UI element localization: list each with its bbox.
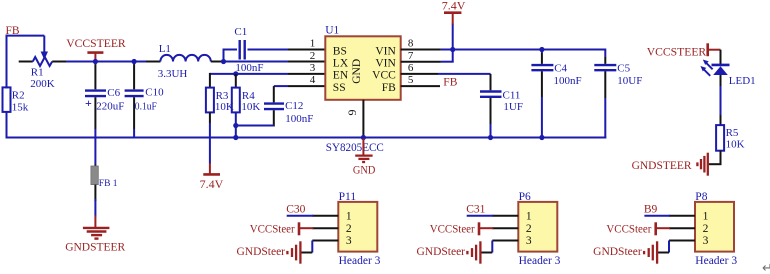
svg-text:1: 1 (310, 38, 316, 50)
svg-text:VCC: VCC (372, 70, 396, 82)
svg-text:2: 2 (526, 223, 532, 235)
pin number 1 of P6 (526, 211, 532, 223)
svg-text:SY8205ECC: SY8205ECC (326, 142, 384, 154)
wire pin 7 stub (401, 61, 454, 63)
pin number 4 (310, 74, 316, 86)
node C11 rail junction (488, 135, 493, 140)
pin number 2 of P11 (346, 223, 352, 235)
wire FB net horizontal (7, 35, 45, 37)
wire pin 1 stub of P6 (492, 215, 518, 217)
svg-text:1: 1 (526, 211, 532, 223)
svg-text:↵: ↵ (762, 260, 770, 274)
svg-text:C1: C1 (234, 26, 247, 38)
svg-text:Header 3: Header 3 (519, 255, 561, 267)
svg-text:9: 9 (345, 110, 359, 116)
svg-text:100nF: 100nF (285, 113, 313, 125)
wire LED top (720, 50, 722, 64)
label Header 3 of P6 (519, 255, 561, 267)
svg-text:1UF: 1UF (503, 101, 523, 113)
pin number 1 (310, 38, 316, 50)
pin number 7 (408, 50, 414, 62)
svg-text:C12: C12 (285, 100, 303, 112)
wire pin 3 stub of P6 (492, 240, 518, 242)
power port VCCSteer of P8 (606, 222, 670, 235)
pin name GND rotated (351, 59, 363, 84)
svg-text:7: 7 (408, 50, 414, 62)
svg-text:3: 3 (703, 235, 709, 247)
svg-text:VCCSteer: VCCSteer (250, 223, 295, 235)
wire R3 bottom to 7.4V (209, 112, 211, 163)
wire pin 3 riser of P11 (301, 241, 312, 253)
power port VCCSTEER (66, 36, 126, 61)
wire net C31 (467, 215, 494, 217)
capacitor C6 (85, 62, 124, 139)
pin number 1 of P8 (703, 211, 709, 223)
svg-text:GND: GND (353, 163, 376, 177)
resistor R2 (3, 87, 29, 113)
svg-text:100nF: 100nF (554, 75, 582, 87)
pin number 1 of P11 (346, 211, 352, 223)
node 7.4V junction (450, 47, 455, 52)
svg-text:10K: 10K (726, 139, 745, 151)
node R4 top junction (233, 71, 238, 76)
wire FB1 to ground (94, 199, 96, 217)
wire 7.4V drop (452, 24, 454, 62)
node R4 bottom junction (233, 123, 238, 128)
net label C30 (286, 203, 305, 215)
svg-text:C31: C31 (466, 203, 485, 215)
label Header 3 of P11 (339, 255, 381, 267)
pin number 3 (310, 62, 316, 74)
wire LED to R5 (720, 75, 722, 125)
wire net B9 (644, 215, 670, 217)
pin number 9 rotated (345, 110, 359, 116)
connector P11 designator (339, 191, 357, 203)
wire EN divider ground link (236, 125, 274, 127)
LED LED1 (700, 60, 755, 88)
connector P8 designator (695, 191, 707, 203)
node C10 junction (132, 59, 137, 64)
svg-text:1: 1 (703, 211, 709, 223)
wire pin 8 VIN rail (401, 49, 606, 51)
pin name SS (333, 82, 346, 94)
svg-text:6: 6 (408, 62, 414, 74)
wire pin 2 stub of P8 (669, 227, 695, 229)
svg-text:2: 2 (346, 223, 352, 235)
pin number 3 of P11 (346, 235, 352, 247)
resistor R5 (716, 125, 745, 151)
wire pin 3 riser of P6 (481, 241, 492, 253)
wire pin 1 stub of P8 (669, 215, 695, 217)
node LX junction (221, 59, 226, 64)
svg-text:3: 3 (526, 235, 532, 247)
part number SY8205ECC (326, 142, 384, 154)
pin number 2 of P8 (703, 223, 709, 235)
svg-text:C5: C5 (617, 62, 630, 74)
svg-text:BS: BS (333, 45, 347, 57)
pin number 6 (408, 62, 414, 74)
inductor L1 (146, 43, 224, 80)
ground GNDSTEER right rotated (632, 153, 708, 176)
potentiometer R1 wiper arm (41, 36, 48, 60)
svg-text:GND: GND (351, 59, 363, 84)
op-amp U1 body (325, 36, 400, 100)
label Header 3 of P8 (695, 255, 737, 267)
svg-text:C30: C30 (286, 203, 305, 215)
wire EN line (210, 73, 325, 75)
pin name VCC (372, 70, 396, 82)
connector P6 body (518, 202, 557, 252)
capacitor C1 (223, 26, 289, 74)
svg-text:VCCSTEER: VCCSTEER (647, 45, 707, 59)
svg-text:7.4V: 7.4V (200, 177, 224, 191)
node C4 top junction (539, 47, 544, 52)
capacitor C12 (264, 86, 313, 126)
svg-text:5: 5 (408, 74, 414, 86)
svg-text:GNDSTEER: GNDSTEER (65, 239, 125, 253)
svg-text:VIN: VIN (375, 45, 396, 57)
pin number 2 of P6 (526, 223, 532, 235)
connector P6 designator (519, 191, 531, 203)
pin name LX (333, 58, 349, 70)
svg-text:R2: R2 (12, 90, 25, 102)
svg-text:Header 3: Header 3 (339, 255, 381, 267)
svg-text:3.3UH: 3.3UH (158, 68, 188, 80)
pin name VIN pin 7 (375, 58, 396, 70)
power port VCCSteer of P11 (250, 222, 314, 235)
net label C31 (466, 203, 485, 215)
svg-text:VCCSteer: VCCSteer (430, 223, 475, 235)
svg-text:2: 2 (703, 223, 709, 235)
svg-text:EN: EN (333, 70, 349, 82)
ground GNDSTEER symbol (65, 216, 125, 254)
power port 7.4V lower (200, 163, 224, 191)
svg-text:VIN: VIN (375, 58, 396, 70)
svg-text:C4: C4 (554, 62, 567, 74)
pin number 5 (408, 74, 414, 86)
ground GND symbol (353, 139, 376, 177)
net label FB (6, 25, 20, 37)
svg-text:FB: FB (382, 82, 396, 94)
wire pin 3 stub of P11 (312, 240, 338, 242)
svg-text:0.1uF: 0.1uF (135, 101, 157, 113)
wire pin 1 stub of P11 (312, 215, 338, 217)
wire LX to pin 2 (223, 61, 326, 63)
paragraph mark (762, 260, 770, 274)
svg-text:4: 4 (310, 74, 316, 86)
capacitor C5 (594, 49, 642, 139)
node R4 rail junction (233, 135, 238, 140)
svg-text:100nF: 100nF (235, 62, 263, 74)
svg-text:200K: 200K (30, 78, 55, 90)
svg-text:220uF: 220uF (96, 101, 124, 113)
svg-text:GNDSteer: GNDSteer (416, 246, 465, 258)
ground GNDSteer of P11 (236, 241, 300, 263)
pin number 8 (408, 38, 414, 50)
svg-text:U1: U1 (325, 25, 339, 37)
svg-text:SS: SS (333, 82, 346, 94)
ground GNDSteer of P8 (593, 241, 657, 263)
wire main rail (66, 61, 160, 63)
svg-text:GNDSteer: GNDSteer (593, 246, 642, 258)
wire R2 bottom (6, 112, 8, 139)
pin name EN (333, 70, 349, 82)
svg-text:LED1: LED1 (729, 75, 756, 87)
power port VCCSTEER right (647, 43, 721, 58)
pin number 2 (310, 50, 316, 62)
wire net C30 (287, 215, 314, 217)
svg-text:R1: R1 (31, 67, 44, 79)
pin number 3 of P6 (526, 235, 532, 247)
node pin 9 rail junction (361, 135, 366, 140)
svg-text:GNDSteer: GNDSteer (236, 246, 285, 258)
svg-text:L1: L1 (159, 43, 171, 55)
wire pin 2 stub of P11 (312, 227, 338, 229)
svg-text:LX: LX (333, 58, 349, 70)
svg-text:15k: 15k (12, 102, 29, 114)
connector P11 body (338, 202, 377, 252)
svg-text:VCCSTEER: VCCSTEER (66, 36, 126, 50)
wire pin 3 riser of P8 (658, 241, 669, 253)
capacitor C4 (531, 50, 581, 139)
svg-text:C11: C11 (503, 90, 521, 102)
wire FB net vertical to R2 (6, 35, 8, 89)
pin name VIN pin 8 (375, 45, 396, 57)
wire ground rail (6, 137, 607, 139)
svg-text:C6: C6 (107, 87, 120, 99)
op-amp U1 designator (325, 25, 339, 37)
pin number 3 of P8 (703, 235, 709, 247)
svg-text:10K: 10K (241, 101, 260, 113)
svg-text:7.4V: 7.4V (442, 0, 466, 13)
svg-text:3: 3 (310, 62, 316, 74)
svg-text:FB: FB (443, 76, 457, 88)
pin name FB pin 5 (382, 82, 396, 94)
wire pin 2 stub of P6 (492, 227, 518, 229)
svg-text:1: 1 (346, 211, 352, 223)
svg-text:B9: B9 (644, 203, 658, 215)
power port VCCSteer of P6 (430, 222, 494, 235)
capacitor C11 (480, 74, 523, 139)
power port 7.4V top (442, 0, 466, 24)
svg-text:+: + (85, 96, 92, 110)
wire SS line (274, 85, 326, 87)
net label B9 (644, 203, 658, 215)
ferrite bead FB 1 (91, 138, 118, 202)
node VCCSTEER junction (93, 59, 98, 64)
svg-text:8: 8 (408, 38, 414, 50)
wire pin 3 stub of P8 (669, 240, 695, 242)
svg-text:3: 3 (346, 235, 352, 247)
resistor R3 (206, 73, 234, 113)
svg-text:C10: C10 (145, 87, 164, 99)
svg-text:FB 1: FB 1 (99, 179, 118, 189)
wire GND pin 9 stub (362, 100, 364, 139)
wire pin 1 stub (288, 49, 325, 51)
svg-text:Header 3: Header 3 (695, 255, 737, 267)
pin name BS (333, 45, 347, 57)
ground GNDSteer of P6 (416, 241, 480, 263)
svg-text:VCCSteer: VCCSteer (606, 223, 651, 235)
wire pin 5 FB stub (401, 85, 440, 87)
node C4 rail junction (539, 135, 544, 140)
svg-text:R5: R5 (726, 127, 739, 139)
svg-text:2: 2 (310, 50, 316, 62)
capacitor C10 (125, 62, 165, 139)
wire VCC line (401, 73, 491, 75)
svg-text:GNDSTEER: GNDSTEER (632, 158, 692, 172)
connector P8 body (695, 202, 734, 252)
svg-text:10UF: 10UF (617, 75, 642, 87)
resistor R1 (19, 57, 66, 90)
resistor R4 (232, 74, 261, 113)
wire R5 to ground (709, 151, 722, 165)
net label FB pin5 (443, 76, 457, 88)
wire R4 bottom (235, 112, 237, 138)
